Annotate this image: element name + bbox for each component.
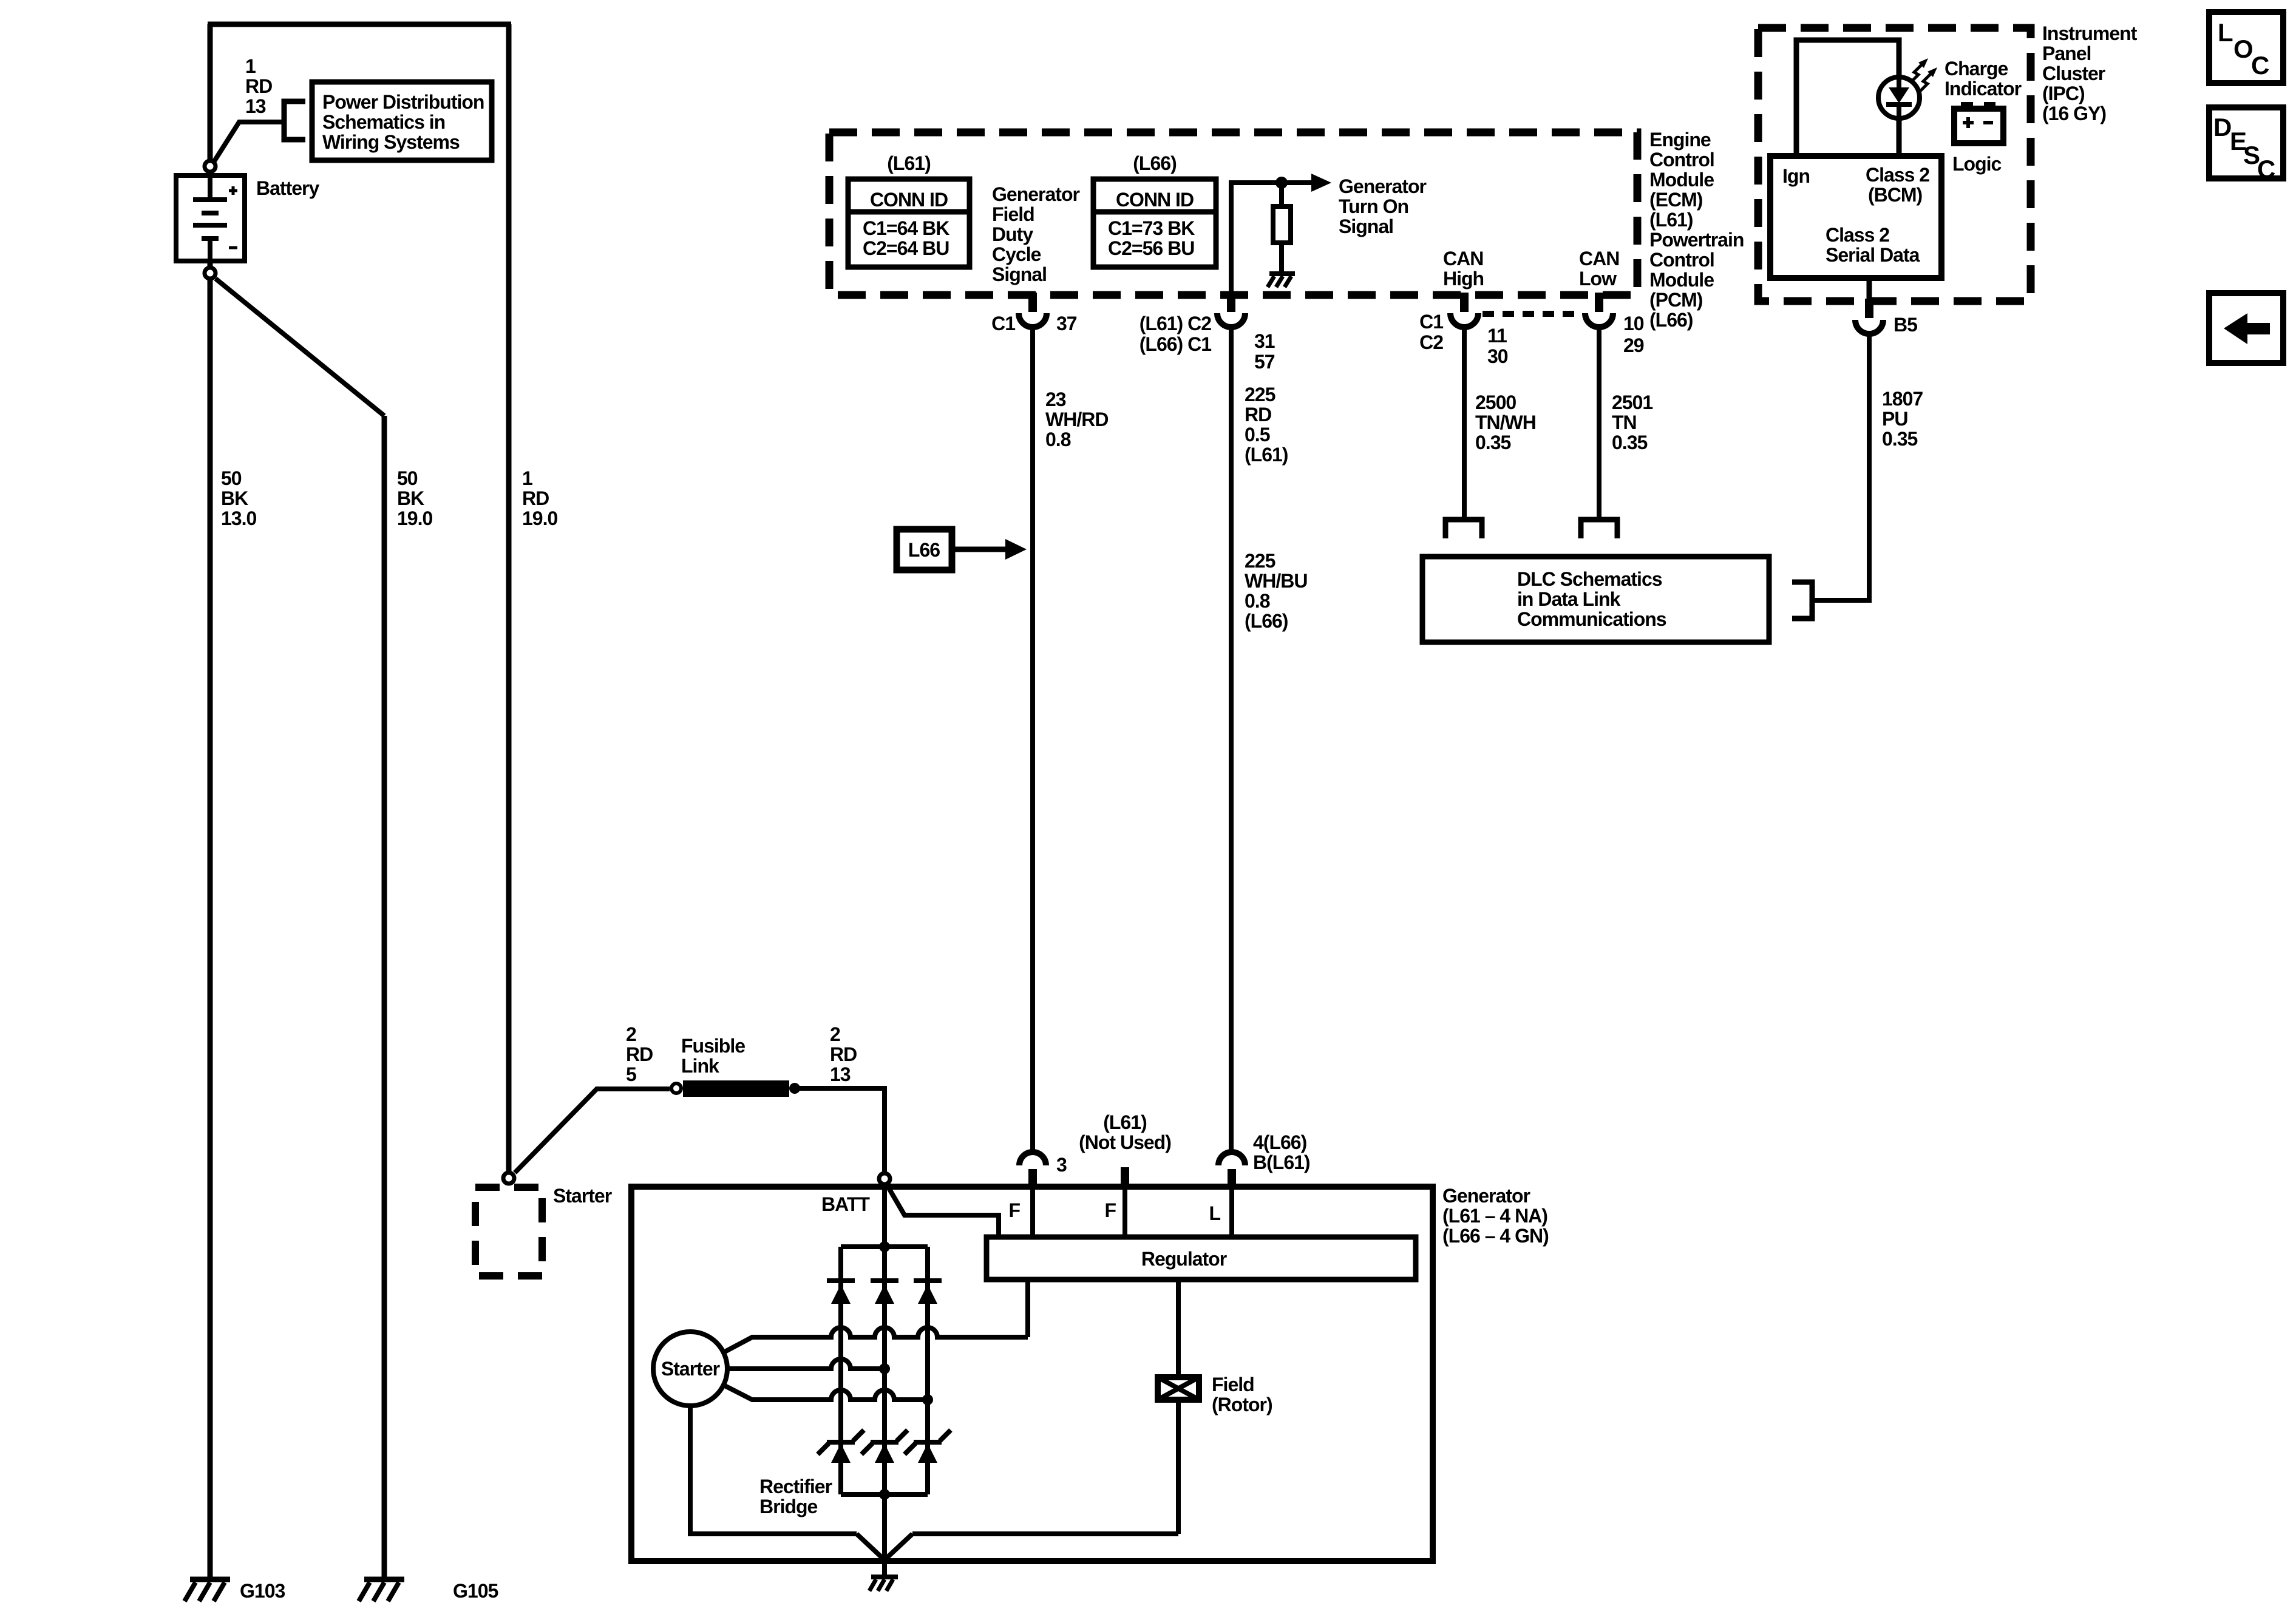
rectifier leg 1 [838,1247,843,1494]
wire: rectifier bottom to case ground [882,1494,887,1577]
wire: vertical 50 BK 19.0 down to G105 [382,416,387,1579]
svg-text:Regulator: Regulator [1141,1248,1227,1270]
svg-text:CONN ID: CONN ID [1116,189,1194,211]
box: DLC Schematics in Data Link Communications [1422,557,1769,642]
stator winding phase 1 (to regulator) [724,1327,1028,1352]
svg-text:1RD19.0: 1RD19.0 [522,467,557,529]
node: junction dot on turn-on branch [1275,177,1288,189]
rectifier bridge bottom bar [841,1492,928,1497]
BCM box: Ign / Class 2 (BCM) / Class 2 Serial Data [1770,156,1941,278]
node: fusible link right junction dot [789,1083,800,1094]
CONN ID box L66 [1093,179,1216,267]
battery internal stub top [208,174,212,197]
battery plus sign [229,186,237,195]
charge indicator LED circle [1878,77,1920,118]
svg-text:F: F [1008,1199,1020,1221]
wire: 1 RD 13 from battery + terminal to bracket [214,122,284,162]
svg-text:Logic: Logic [1952,153,2002,175]
battery B- terminal circle [205,268,216,279]
svg-text:FusibleLink: FusibleLink [681,1035,745,1077]
svg-text:2500TN/WH0.35: 2500TN/WH0.35 [1475,392,1536,453]
wire: BATT diagonal branch to regulator [888,1186,999,1239]
svg-text:C1=73 BKC2=56 BU: C1=73 BKC2=56 BU [1108,217,1195,259]
back arrow box [2209,293,2283,363]
ECM dashed box [829,132,1637,295]
zener diode D6 (lower right) [905,1430,951,1463]
svg-text:4(L66)B(L61): 4(L66)B(L61) [1253,1131,1310,1173]
svg-text:Field(Rotor): Field(Rotor) [1212,1374,1272,1415]
svg-text:50BK13.0: 50BK13.0 [221,467,256,529]
wire: BATT vertical into rectifier bridge [882,1187,887,1247]
svg-text:Starter: Starter [661,1358,720,1380]
wire: right vertical 1 RD 19.0 down to starter junction [506,24,512,1171]
logic battery icon [1954,102,2003,143]
zener diode D5 (lower middle) [861,1430,908,1463]
svg-text:L: L [2218,18,2233,47]
wire: top horizontal of power rectangle [208,22,511,27]
wire: ground V left diagonal [857,1534,885,1560]
connector C1 pin 37 (ECM exit) [1019,293,1047,327]
ground: internal ECM ground [1268,274,1295,287]
diode D2 (upper middle) [871,1278,898,1304]
wire: regulator to field [1176,1280,1181,1534]
diode D3 (upper right) [914,1278,942,1304]
svg-text:Starter: Starter [553,1185,612,1207]
svg-text:G105: G105 [453,1580,498,1602]
resistor (pull-up to ground inside ECM) [1273,183,1291,274]
rectifier leg 2 [882,1247,887,1494]
svg-text:3: 3 [1056,1154,1067,1176]
svg-text:37: 37 [1056,313,1077,334]
battery box [176,175,245,261]
connector 3 (generator F entry) [1019,1127,1046,1187]
wire: 1807 PU from B5 to DLC bracket [1812,333,1869,600]
node: dot on top bar [879,1241,890,1252]
svg-text:EngineControlModule(ECM)(L61)P: EngineControlModule(ECM)(L61)PowertrainC… [1649,129,1744,331]
stator circle (labelled Starter) [653,1332,727,1406]
svg-text:C1=64 BKC2=64 BU: C1=64 BKC2=64 BU [863,217,949,259]
svg-text:50BK19.0: 50BK19.0 [397,467,432,529]
svg-text:CANLow: CANLow [1579,248,1619,290]
ground: generator case ground [869,1577,898,1591]
svg-text:2RD13: 2RD13 [830,1023,857,1085]
svg-text:1130: 1130 [1487,325,1508,367]
fusible link body [683,1080,789,1097]
starter dashed box [475,1187,542,1276]
LOC box [2209,12,2283,83]
battery plate long 1 [193,197,227,202]
svg-text:RectifierBridge: RectifierBridge [759,1476,832,1517]
svg-text:1RD13: 1RD13 [245,55,272,117]
svg-text:CANHigh: CANHigh [1443,248,1484,290]
box: Power Distribution Schematics in Wiring Systems [312,82,492,160]
stator winding phase 2 [727,1359,885,1369]
pin F1 into regulator [1030,1187,1035,1239]
DESC box [2209,107,2283,183]
svg-text:1029: 1029 [1623,313,1644,356]
wire: arrow to Generator Turn On Signal [1282,180,1313,185]
node: BATT junction circle [879,1173,890,1184]
wire: left vertical 50 BK 13.0 down to G103 [208,24,213,1579]
svg-text:CONN ID: CONN ID [870,189,948,211]
svg-text:L66: L66 [908,539,940,561]
pin F2 stub (not used) [1121,1167,1129,1187]
node: dot on bottom bar [879,1489,890,1500]
battery plate long 2 [193,223,227,228]
svg-text:C1: C1 [991,313,1015,334]
connector CAN High (ECM exit) [1450,293,1478,327]
svg-text:(L66): (L66) [1133,152,1177,174]
svg-text:Generator(L61 – 4 NA)(L66 – 4: Generator(L61 – 4 NA)(L66 – 4 GN) [1442,1185,1549,1247]
battery minus sign [229,246,237,249]
battery internal stub bottom [208,241,212,261]
wire: 2 RD 13 from fusible link to BATT [795,1088,885,1171]
svg-text:Class 2(BCM): Class 2(BCM) [1866,164,1929,206]
svg-text:2RD5: 2RD5 [626,1023,653,1085]
pin F2 into regulator [1123,1187,1127,1239]
wire: dashed link between CAN connectors [1483,311,1582,317]
battery plate short 2 [202,236,219,241]
ground G105 [359,1579,404,1601]
LED light arrow 2 [1920,67,1937,92]
svg-text:InstrumentPanelCluster(IPC)(16: InstrumentPanelCluster(IPC)(16 GY) [2042,22,2138,124]
svg-text:G103: G103 [240,1580,285,1602]
wire: 2 RD 5 from starter junction to fusible link [515,1089,670,1173]
wire: ground V right diagonal [885,1534,912,1560]
pin L into regulator [1229,1187,1234,1239]
connector 4(L66) B(L61) (generator L entry) [1218,1152,1245,1187]
svg-text:B5: B5 [1894,314,1917,336]
node: phase 3 dot [922,1394,933,1405]
wire: generator field duty cycle signal 23 WH/RD [1030,327,1035,1152]
wire: LED to BCM top [1897,117,1902,156]
node: fusible link left terminal circle [671,1083,681,1093]
CONN ID box L61 [848,179,970,267]
svg-text:(L61) C2(L66) C1: (L61) C2(L66) C1 [1140,313,1211,355]
wire: CAN Low 2501 TN down to DLC [1597,327,1601,520]
regulator box [987,1237,1416,1280]
svg-text:(Not Used): (Not Used) [1079,1131,1171,1153]
LED light arrow 1 [1911,58,1928,83]
wire: generator turn on signal 225 [1229,327,1234,1152]
node: starter junction circle [503,1173,514,1184]
svg-text:C1C2: C1C2 [1419,311,1443,353]
svg-text:L: L [1209,1202,1220,1224]
field rotor symbol [1158,1377,1199,1400]
svg-text:ChargeIndicator: ChargeIndicator [1944,58,2022,100]
svg-text:225RD0.5(L61): 225RD0.5(L61) [1245,384,1288,466]
zener diode D4 (lower left) [818,1430,864,1463]
wire: L66 arrow [952,547,1007,552]
wire: CAN High 2500 TN/WH down to DLC [1462,327,1467,520]
stator winding phase 3 [724,1385,928,1400]
svg-text:D: D [2213,113,2232,141]
wire: diagonal from B- to 50 BK 19.0 vertical [216,279,384,416]
rectifier leg 3 [925,1247,930,1494]
battery plate short 1 [202,211,219,215]
IPC dashed box [1758,28,2031,301]
battery B+ terminal circle [205,161,216,172]
DLC bracket for CAN High [1445,520,1482,538]
svg-text:Ign: Ign [1782,165,1810,187]
svg-text:3157: 3157 [1254,330,1275,373]
DLC bracket for CAN Low [1581,520,1617,538]
rectifier bridge top bar [841,1244,928,1249]
diode D1 (upper left) [827,1278,855,1304]
L66 callout box [897,529,952,570]
wire: BCM bottom to B5 connector [1867,278,1872,300]
svg-text:C: C [2257,155,2275,183]
connector C2/C1 pin 31/57 (ECM exit) [1217,293,1245,327]
connector B5 (IPC exit) [1855,299,1883,334]
svg-text:O: O [2233,35,2254,63]
ground G103 [185,1579,230,1601]
svg-text:(L61): (L61) [887,152,931,174]
generator box [631,1187,1433,1561]
wire: regulator to stator phase tap [1025,1280,1030,1337]
svg-text:23WH/RD0.8: 23WH/RD0.8 [1045,388,1108,450]
svg-text:C: C [2251,51,2269,80]
svg-text:F: F [1104,1199,1116,1221]
svg-text:GeneratorTurn OnSignal: GeneratorTurn OnSignal [1339,175,1426,237]
svg-text:GeneratorFieldDutyCycleSignal: GeneratorFieldDutyCycleSignal [992,183,1079,285]
svg-text:225WH/BU0.8(L66): 225WH/BU0.8(L66) [1245,550,1307,632]
svg-text:2501TN0.35: 2501TN0.35 [1612,392,1652,453]
svg-text:(L61): (L61) [1103,1111,1147,1133]
node: phase 2 dot [879,1363,890,1374]
wire: turn-on signal branch inside ECM [1231,183,1282,295]
connector CAN Low (ECM exit) [1585,293,1613,327]
DLC right-side bracket [1792,582,1812,619]
wire: field return run [912,1531,1178,1536]
connector bracket to Power Distribution box [284,101,305,140]
svg-text:1807PU0.35: 1807PU0.35 [1882,388,1923,450]
wire: Ign loop to charge indicator [1796,40,1899,156]
svg-text:Battery: Battery [256,177,319,199]
wire: stator bottom to ground run [690,1406,857,1534]
svg-text:BATT: BATT [821,1193,870,1215]
